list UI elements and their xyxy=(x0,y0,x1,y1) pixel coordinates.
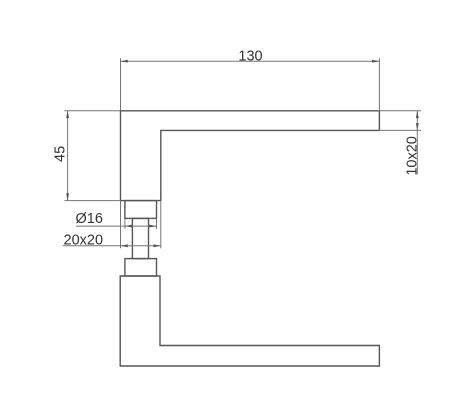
svg-text:10x20: 10x20 xyxy=(404,136,420,176)
spindle xyxy=(132,218,148,258)
upper neck xyxy=(125,201,157,219)
svg-text:Ø16: Ø16 xyxy=(76,211,103,227)
svg-text:45: 45 xyxy=(52,146,68,162)
lower neck xyxy=(125,259,157,276)
svg-text:130: 130 xyxy=(238,48,262,64)
upper handle outline xyxy=(121,111,380,201)
svg-text:20x20: 20x20 xyxy=(64,232,104,248)
dimension 20x20 xyxy=(63,201,161,249)
dimension 130 xyxy=(121,48,380,111)
dimension 45 xyxy=(52,111,120,201)
dimension Ø16 xyxy=(76,211,157,229)
lower handle outline xyxy=(120,276,379,366)
dimension 10x20 xyxy=(379,111,421,176)
